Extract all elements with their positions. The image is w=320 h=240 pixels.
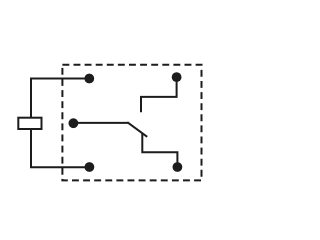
wire: NC throw lead (terminal 4 down and over) xyxy=(141,81,177,112)
relay enclosure (dashed outline) xyxy=(62,65,201,181)
terminal dot: common pin (middle-left) xyxy=(69,118,79,128)
relay coil K1 xyxy=(18,118,41,129)
terminal dot: coil pin 1 (top-left) xyxy=(84,74,94,84)
switch blade (movable contact) xyxy=(127,122,147,137)
terminal dot: NO pin (bottom-right) xyxy=(173,162,183,172)
wire: bottom coil lead (coil bottom to terminal 2) xyxy=(31,129,89,167)
wire: common lead (terminal 3 to switch pivot) xyxy=(73,122,128,124)
wire: top coil lead (terminal 1 to coil top) xyxy=(31,79,89,118)
terminal dot: coil pin 2 (bottom-left) xyxy=(85,162,95,172)
terminal dot: NC pin (top-right) xyxy=(172,72,182,82)
wire: NO throw lead (blade junction to terminal 5) xyxy=(142,133,177,163)
